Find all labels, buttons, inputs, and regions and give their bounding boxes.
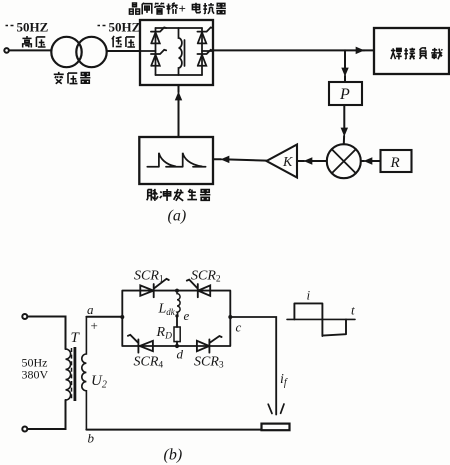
SCR2 [187, 280, 210, 298]
reactor coil inside bridge [179, 28, 182, 75]
bridge bottom rail [156, 74, 203, 76]
P box [329, 82, 362, 105]
SCR4 [128, 335, 153, 353]
wire resistor to node d [176, 342, 178, 346]
thyristor top-right [197, 27, 212, 43]
wire R to multiplier [369, 160, 381, 162]
wire e to resistor [176, 316, 178, 327]
primary winding of T [66, 349, 71, 400]
svg-text:b: b [88, 431, 95, 446]
reactor Ldk coil [177, 291, 180, 316]
core solid bar [74, 347, 77, 401]
resistor RD [174, 327, 180, 342]
thyristor bridge + reactor box [140, 20, 213, 85]
wire node a to bridge [86, 316, 122, 318]
node dot d [175, 344, 179, 348]
svg-text:P: P [339, 86, 350, 103]
multiplier X [332, 149, 356, 173]
arc ticks at electrode [268, 404, 284, 414]
source terminal top [22, 314, 27, 319]
bridge left column wire [155, 28, 157, 75]
current waveform axis [287, 318, 355, 320]
current waveform square wave [294, 303, 346, 336]
wire P to multiplier [343, 105, 345, 131]
thyristor bottom-left [151, 50, 166, 66]
svg-text:d: d [177, 347, 184, 362]
pulse waveform inside box [147, 153, 205, 167]
wire bridge to welding load [213, 49, 364, 51]
wire node b to workpiece [86, 429, 261, 431]
svg-text:(a): (a) [168, 208, 187, 225]
source terminal bottom [22, 427, 27, 432]
bridge frame wires [122, 291, 230, 346]
R box [381, 150, 412, 172]
svg-text:t: t [351, 303, 355, 318]
AC tilde mark left [6, 25, 14, 27]
svg-text:(b): (b) [164, 447, 183, 464]
multiplier circle [327, 144, 361, 178]
wire transformer to thyristor bridge box [107, 50, 140, 52]
K amplifier triangle [267, 145, 298, 178]
wire junction down to P [344, 50, 346, 71]
bridge right column wire [201, 28, 203, 75]
transformer secondary circle [76, 37, 106, 67]
input terminal (a) [4, 48, 9, 53]
pulse generator box [139, 137, 213, 184]
wire K to pulse generator [226, 159, 267, 160]
node dot c [228, 315, 232, 319]
label 焊接负载 (welding load) [391, 48, 402, 59]
svg-text:50HZ: 50HZ [109, 20, 141, 35]
wire multiplier to K [309, 160, 327, 162]
transformer primary circle [51, 37, 81, 67]
wire terminal to transformer [9, 49, 52, 51]
svg-text:e: e [184, 308, 190, 323]
workpiece bar [262, 424, 290, 431]
label 晶闸管桥+电抗器 (thyristor bridge + reactor) [129, 3, 139, 14]
svg-text:c: c [236, 320, 242, 335]
svg-text:+: + [91, 318, 98, 333]
svg-text:380V: 380V [22, 368, 49, 382]
wire pulse generator up to bridge (trigger) [178, 98, 180, 137]
svg-text:+: + [179, 1, 186, 16]
node dot e [175, 314, 178, 317]
arrow into welding load [359, 49, 364, 51]
SCR1 [140, 279, 169, 297]
reactor core line [184, 40, 186, 66]
label 高压 (high voltage) [22, 36, 31, 48]
node dot a [120, 315, 124, 319]
label 低压 (low voltage) [112, 36, 122, 47]
wire top terminal to primary [27, 317, 65, 350]
label 变压器 (transformer) [54, 72, 64, 84]
bridge output stub [202, 50, 213, 52]
secondary winding of T [82, 317, 87, 430]
svg-text:a: a [87, 302, 94, 317]
SCR3 [197, 336, 222, 353]
bridge top rail [156, 27, 203, 29]
svg-text:i: i [307, 288, 311, 303]
welding load box [374, 28, 449, 74]
node dot bridge top center [175, 289, 179, 293]
thyristor bottom-right [197, 50, 212, 66]
label 脉冲发生器 (pulse generator) [147, 189, 158, 201]
core dashed line [71, 348, 73, 400]
svg-text:50HZ: 50HZ [17, 20, 49, 35]
wire primary to bottom terminal [27, 400, 65, 429]
bridge input stub [140, 50, 156, 52]
svg-text:K: K [282, 155, 293, 170]
svg-text:R: R [390, 155, 400, 171]
AC tilde mark right [98, 25, 106, 27]
wire node c to electrode [230, 317, 276, 415]
thyristor top-left [151, 27, 166, 43]
